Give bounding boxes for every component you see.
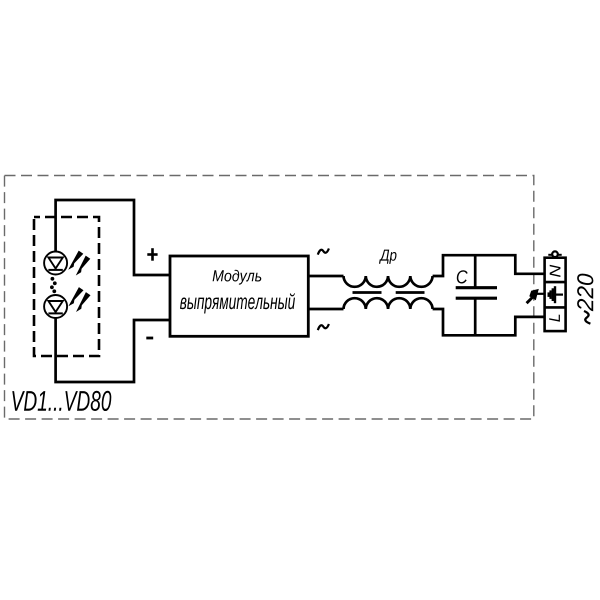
connector PE pin line [548,254,561,256]
mains label ~220 [584,311,590,324]
module label line 1 [213,270,262,285]
capacitor plate bottom [456,297,497,300]
tilde AC mark top [318,249,329,255]
plug earth arrow [529,289,539,300]
connector cell divider 2 [545,306,566,309]
connector cell divider 1 [545,281,566,284]
LED VD1 [44,252,67,275]
choke core line left segment [353,291,382,294]
connector PE pin circle [552,251,558,257]
capacitor label C [457,270,468,283]
outer dashed enclosure border [5,176,534,420]
earth symbol in middle cell [549,286,563,303]
dotted series continuation [50,277,57,293]
choke core line right segment [396,291,425,294]
tilde AC mark bottom [318,324,329,330]
connector terminal L label [549,315,560,322]
connector terminal N label [550,265,561,277]
minus terminal label [146,337,153,340]
choke top winding [344,276,433,287]
capacitor plate top [456,286,497,289]
wire choke top to connector N [433,255,545,276]
wire module AC output top [308,275,343,278]
capacitor C branch bottom lead [474,298,477,335]
mains connector box [545,258,566,331]
label VD1...VD80 [12,391,111,411]
wire choke bottom to connector L [433,309,545,335]
inner dashed LED box [34,217,99,356]
LED VD1 light arrows [68,251,90,276]
wire top-left: LED string top to module + input [56,200,170,275]
wire module AC output bottom [308,308,343,311]
choke label Др [379,250,397,264]
LED VD80 [44,295,67,318]
module label line 2 [180,293,295,313]
wire bottom-left: LED string bottom to module - input [56,318,170,382]
rectifier module box [170,256,308,336]
choke bottom winding [344,298,433,309]
capacitor C branch top lead [474,255,477,288]
plus terminal label [147,248,157,261]
LED VD80 light arrows [68,287,90,312]
